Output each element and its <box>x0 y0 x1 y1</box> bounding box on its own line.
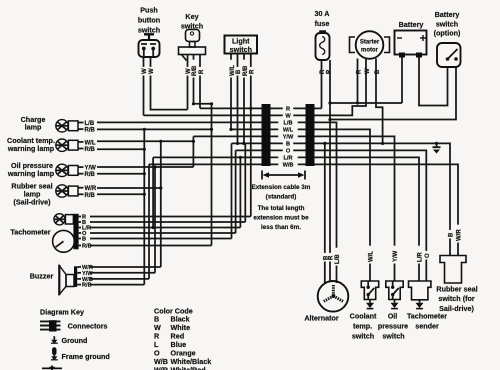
wire battery positive lead <box>401 57 403 103</box>
wire tach O line <box>90 232 236 234</box>
svg-text:Tachometer: Tachometer <box>407 312 447 321</box>
svg-text:switch (for: switch (for <box>438 294 475 303</box>
svg-text:W/L: W/L <box>369 251 375 262</box>
wire label Y/W (oil pressure switch) <box>392 246 399 264</box>
svg-text:B: B <box>236 69 242 74</box>
ground symbol key <box>51 336 88 345</box>
svg-text:Starter: Starter <box>360 40 380 46</box>
svg-text:Y/W: Y/W <box>393 250 399 262</box>
tachometer wire labels <box>79 215 92 250</box>
connectors symbol <box>40 320 108 331</box>
svg-text:W/R: W/R <box>85 186 97 192</box>
wire W row to starter <box>315 59 367 116</box>
wire push button W right <box>151 57 188 110</box>
svg-text:Diagram Key: Diagram Key <box>40 308 84 317</box>
svg-text:B: B <box>286 141 290 147</box>
svg-text:temp.: temp. <box>353 322 372 331</box>
wire W/B row <box>149 163 262 165</box>
svg-text:less than 6m.: less than 6m. <box>261 224 301 231</box>
wire light switch R <box>250 54 252 217</box>
frame ground symbol key <box>51 347 110 361</box>
diagram key <box>40 308 84 317</box>
svg-text:W/R: W/R <box>154 366 169 370</box>
wire alternator B lead <box>324 143 326 284</box>
svg-text:Alternator: Alternator <box>304 313 339 322</box>
wire W/L row to coolant switch <box>315 129 371 281</box>
svg-text:Frame ground: Frame ground <box>62 352 110 361</box>
wire W/B row to rubber seal switch <box>315 164 459 255</box>
wire R net to starter and battery <box>330 102 402 104</box>
svg-text:R/B: R/B <box>243 65 249 76</box>
svg-text:Rubber seal: Rubber seal <box>436 285 477 294</box>
svg-text:sender: sender <box>415 322 439 331</box>
color code <box>154 307 211 370</box>
wire L/B row to alternator <box>315 122 337 283</box>
wire Y/W riser <box>192 136 194 167</box>
oil pressure warning lamp <box>7 161 96 178</box>
wire label W/L (coolant temp switch) <box>367 246 374 264</box>
extension cable rows between connectors <box>271 108 306 164</box>
wire tach R line <box>90 216 251 218</box>
buzzer <box>30 265 77 295</box>
wire buzzer R/B line <box>90 284 144 286</box>
svg-text:R: R <box>250 69 256 74</box>
svg-text:Push: Push <box>140 6 158 15</box>
svg-text:L/B: L/B <box>283 120 292 126</box>
wire L/R row to tach sender <box>315 157 420 281</box>
wire B row to ground and rubber switch <box>315 143 451 255</box>
ground (coolant temp switch) <box>366 300 374 309</box>
connector bar left <box>262 104 271 166</box>
tachometer <box>10 214 78 253</box>
wire R/B distribution left <box>143 129 145 284</box>
wire light switch B <box>237 54 239 144</box>
svg-text:W: W <box>285 113 291 119</box>
ground (engine block) <box>433 143 441 153</box>
svg-text:button: button <box>138 16 160 25</box>
svg-text:O: O <box>425 253 431 258</box>
svg-text:R: R <box>199 69 205 74</box>
svg-text:White/Red: White/Red <box>171 366 206 370</box>
wire coolant lamp W/L <box>97 140 193 142</box>
wire battery switch return <box>330 67 456 120</box>
svg-text:fuse: fuse <box>315 19 330 28</box>
svg-text:W/L: W/L <box>85 140 96 146</box>
svg-text:R: R <box>329 255 335 260</box>
wire labels B W/R (rubber seal switch) <box>447 225 462 243</box>
wire tach B2 line <box>90 238 232 240</box>
svg-text:Coolant: Coolant <box>350 312 377 321</box>
svg-text:R: R <box>286 106 290 112</box>
wire battery to switch <box>419 57 448 106</box>
rubber seal switch <box>436 256 477 313</box>
svg-text:Ground: Ground <box>62 336 88 345</box>
wire R/B distribution right <box>211 104 213 246</box>
svg-text:W/B: W/B <box>283 162 294 168</box>
wire oil lamp R/B <box>97 173 144 175</box>
svg-text:warning lamp: warning lamp <box>7 169 55 178</box>
svg-text:Sail-drive): Sail-drive) <box>439 304 474 313</box>
svg-text:lamp: lamp <box>25 122 42 131</box>
svg-text:W: W <box>142 68 148 74</box>
svg-text:R/B: R/B <box>82 283 92 289</box>
alternator <box>304 281 348 322</box>
charge lamp <box>21 115 96 133</box>
svg-text:R/B: R/B <box>85 193 96 199</box>
wire L/R drop to tach <box>152 157 154 227</box>
extension cable row labels <box>278 105 298 169</box>
wire Y/W row <box>193 135 261 137</box>
buzzer wire labels <box>77 265 93 289</box>
wire tach B line <box>90 221 245 223</box>
wire tach O riser <box>235 150 237 233</box>
wire junctions <box>143 101 438 229</box>
svg-text:R/B: R/B <box>85 147 96 153</box>
svg-text:Buzzer: Buzzer <box>30 272 54 281</box>
wire push button W left <box>143 57 145 115</box>
wire O row to tach sender <box>315 150 427 281</box>
svg-text:Oil: Oil <box>388 312 398 321</box>
svg-text:R/B: R/B <box>85 172 96 178</box>
wire R row <box>200 107 262 109</box>
svg-text:R/B: R/B <box>85 128 96 134</box>
wire W/R riser <box>160 141 162 267</box>
wire labels W R/B R (key switch) <box>185 60 205 78</box>
svg-text:R/B: R/B <box>82 244 92 250</box>
svg-text:W: W <box>149 68 155 74</box>
wire L/B row <box>97 121 262 123</box>
wire key switch R <box>199 55 201 109</box>
svg-text:switch: switch <box>436 19 458 28</box>
wire buzzer Y/W line <box>90 272 155 274</box>
wire rubber lamp R/B <box>97 193 144 195</box>
wire light switch R/B <box>243 54 245 144</box>
starter motor <box>350 31 390 59</box>
wire tach L/R riser <box>239 157 241 227</box>
wire labels L/R O (tachometer sender) <box>416 246 431 264</box>
coolant temp warning lamp <box>7 136 96 153</box>
rubber seal lamp (Sail-drive) <box>11 181 96 206</box>
battery <box>395 20 427 58</box>
svg-text:B: B <box>82 237 86 243</box>
svg-text:Connectors: Connectors <box>68 322 108 331</box>
svg-text:Battery: Battery <box>399 20 424 29</box>
svg-text:30 A: 30 A <box>315 9 330 18</box>
wire buzzer Y/W riser <box>154 167 156 273</box>
wire starter R lead <box>357 59 359 104</box>
wire starter B lead <box>376 59 383 144</box>
svg-text:motor: motor <box>361 48 379 54</box>
svg-text:B: B <box>449 232 455 237</box>
wire W/L row <box>230 128 262 130</box>
svg-text:switch: switch <box>352 332 374 341</box>
wire labels B R L/B (alternator) <box>322 248 341 266</box>
wire charge lamp R/B <box>97 128 212 130</box>
svg-text:Y/W: Y/W <box>82 271 93 277</box>
push button switch <box>138 6 160 58</box>
connector bar right <box>306 104 315 166</box>
wire labels R R (fuse) <box>318 67 332 76</box>
wire tach B riser <box>244 143 246 222</box>
svg-text:warning lamp: warning lamp <box>7 144 55 153</box>
wire labels W/L B R/B R (light switch) <box>228 60 255 78</box>
svg-text:(Sail-drive): (Sail-drive) <box>13 197 51 206</box>
wire tach L/R line <box>90 227 240 229</box>
wire key switch R/B <box>194 55 212 104</box>
svg-text:W/L: W/L <box>230 65 236 76</box>
light switch <box>225 36 258 54</box>
extension cable length arrow <box>262 171 305 180</box>
svg-text:extension must be: extension must be <box>253 215 309 222</box>
svg-text:(option): (option) <box>434 29 461 38</box>
svg-text:Key: Key <box>185 12 198 21</box>
wire buzzer W/B riser <box>148 164 150 279</box>
svg-text:R/B: R/B <box>192 65 198 76</box>
wire fuse left lead <box>321 60 323 108</box>
svg-text:Battery: Battery <box>435 10 460 19</box>
key switch <box>179 12 206 61</box>
extension cable note <box>252 184 311 231</box>
ground (oil pressure switch) <box>391 300 399 309</box>
battery switch (option) <box>434 10 461 67</box>
coolant temp switch <box>350 281 379 341</box>
svg-text:Y/W: Y/W <box>283 134 294 140</box>
wire buzzer W/R line <box>90 266 161 268</box>
svg-text:pressure: pressure <box>378 322 408 331</box>
wire O row <box>236 149 262 151</box>
wire labels R W B (starter) <box>355 67 381 76</box>
wire Y/W row to oil switch <box>315 136 395 281</box>
svg-text:Extension cable 3m: Extension cable 3m <box>252 184 311 191</box>
wire light switch W/L <box>230 54 232 130</box>
wire key switch W <box>187 55 189 110</box>
svg-text:switch: switch <box>230 45 252 54</box>
svg-text:The total length: The total length <box>258 205 305 212</box>
svg-text:L/R: L/R <box>283 155 292 161</box>
tachometer sender <box>407 281 447 331</box>
wire coolant lamp R/B <box>97 148 144 150</box>
wire L/R row <box>153 156 261 158</box>
svg-text:Tachometer: Tachometer <box>10 228 50 237</box>
oil pressure switch <box>378 281 408 341</box>
30A fuse <box>315 9 330 60</box>
wire B row <box>232 142 262 144</box>
clipped key row <box>42 366 62 370</box>
svg-text:L/R: L/R <box>418 252 424 262</box>
wire labels W W (push button) <box>141 67 155 76</box>
wire R row right stub <box>315 107 322 109</box>
svg-text:(standard): (standard) <box>266 193 297 200</box>
svg-text:W/L: W/L <box>283 127 294 133</box>
wire W row <box>144 114 262 116</box>
svg-text:W/R: W/R <box>457 229 463 241</box>
wire buzzer W/B line <box>90 278 149 280</box>
wire tach R/B line <box>90 245 212 247</box>
svg-text:Y/W: Y/W <box>85 166 97 172</box>
wire fuse right lead / alternator R <box>329 60 331 282</box>
svg-text:switch: switch <box>382 332 404 341</box>
wire oil lamp Y/W <box>97 166 193 168</box>
wire rubber lamp W/R <box>97 187 161 189</box>
svg-text:L/B: L/B <box>85 121 95 127</box>
ground (tachometer sender) <box>416 300 424 309</box>
svg-text:L/B: L/B <box>335 254 341 264</box>
wire tach B2 riser <box>231 143 233 238</box>
svg-text:O: O <box>286 148 291 154</box>
